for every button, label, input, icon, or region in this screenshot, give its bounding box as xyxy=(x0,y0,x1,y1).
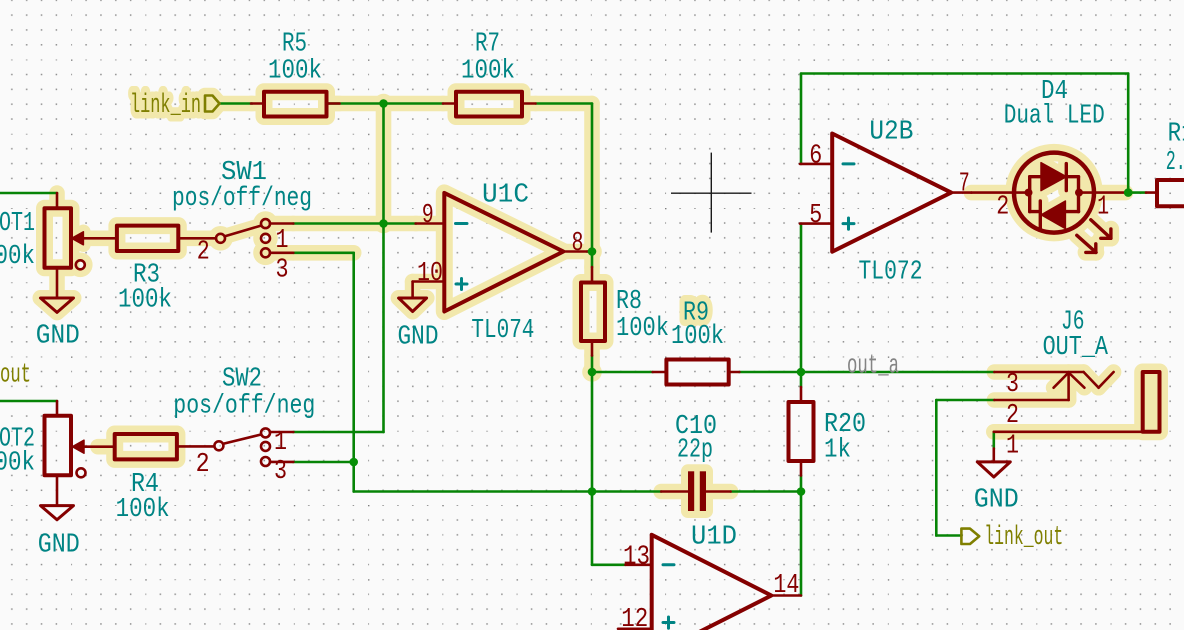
svg-text:100k: 100k xyxy=(616,314,669,344)
svg-text:GND: GND xyxy=(36,322,80,352)
svg-text:100k: 100k xyxy=(116,495,170,525)
svg-text:6: 6 xyxy=(809,142,822,172)
svg-text:POT1: POT1 xyxy=(0,209,35,239)
svg-text:U1C: U1C xyxy=(482,181,529,211)
svg-text:14: 14 xyxy=(773,571,799,601)
svg-text:link_out: link_out xyxy=(984,523,1063,553)
svg-text:100k: 100k xyxy=(0,242,35,272)
svg-text:TL072: TL072 xyxy=(859,258,923,288)
svg-text:1k: 1k xyxy=(824,436,851,466)
svg-text:1: 1 xyxy=(274,428,287,458)
svg-text:R1: R1 xyxy=(1168,120,1184,150)
svg-text:3: 3 xyxy=(274,457,287,487)
svg-text:link_in: link_in xyxy=(130,91,201,121)
svg-text:TL074: TL074 xyxy=(471,316,534,346)
svg-text:Dual LED: Dual LED xyxy=(1004,102,1105,132)
svg-text:GND: GND xyxy=(38,531,80,561)
svg-text:3: 3 xyxy=(1006,370,1019,400)
svg-text:100k: 100k xyxy=(0,449,35,479)
svg-text:R7: R7 xyxy=(475,30,500,60)
svg-text:pos/off/neg: pos/off/neg xyxy=(173,392,315,422)
svg-text:pos/off/neg: pos/off/neg xyxy=(172,184,312,214)
svg-text:100k: 100k xyxy=(461,57,515,87)
svg-text:2: 2 xyxy=(196,450,210,480)
svg-text:U1D: U1D xyxy=(691,523,737,553)
svg-text:out: out xyxy=(0,361,31,391)
svg-text:U2B: U2B xyxy=(869,118,913,148)
svg-text:12: 12 xyxy=(621,605,648,630)
svg-text:13: 13 xyxy=(623,543,650,573)
svg-text:GND: GND xyxy=(974,486,1019,516)
svg-text:out_a: out_a xyxy=(847,352,899,382)
svg-text:2: 2 xyxy=(197,238,210,268)
svg-text:2: 2 xyxy=(996,193,1009,223)
svg-text:100k: 100k xyxy=(268,57,322,87)
svg-text:1: 1 xyxy=(1006,432,1019,462)
svg-text:2: 2 xyxy=(1006,401,1019,431)
svg-text:100k: 100k xyxy=(118,286,172,316)
svg-text:100k: 100k xyxy=(671,322,724,352)
svg-text:8: 8 xyxy=(572,229,584,259)
svg-text:OUT_A: OUT_A xyxy=(1043,333,1109,363)
svg-text:2.2: 2.2 xyxy=(1166,148,1184,178)
svg-text:R5: R5 xyxy=(282,30,307,60)
svg-text:5: 5 xyxy=(809,201,822,231)
svg-text:3: 3 xyxy=(276,256,289,286)
svg-text:GND: GND xyxy=(398,323,439,353)
svg-text:1: 1 xyxy=(1097,193,1109,223)
svg-text:10: 10 xyxy=(417,259,443,289)
svg-text:R8: R8 xyxy=(616,287,642,317)
svg-text:1: 1 xyxy=(276,226,289,256)
svg-text:22p: 22p xyxy=(677,436,713,466)
svg-text:9: 9 xyxy=(422,201,434,231)
svg-text:7: 7 xyxy=(959,170,970,200)
svg-text:SW2: SW2 xyxy=(222,365,262,395)
